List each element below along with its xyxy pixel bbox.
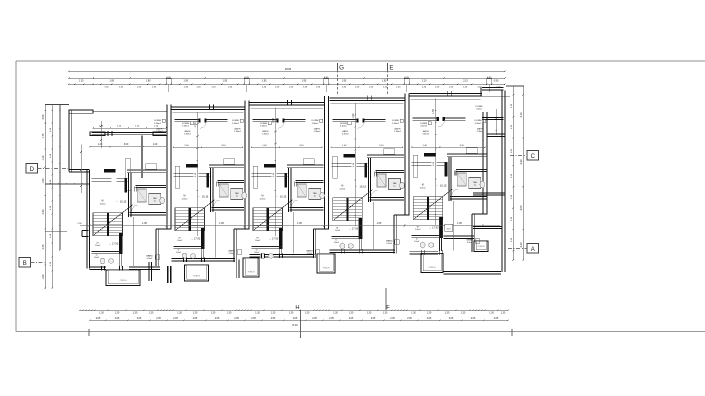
unit 4 closet left	[384, 149, 395, 155]
right annex dimension vertical	[496, 109, 498, 135]
unit 5 hall wall horizontal	[412, 162, 432, 164]
svg-text:3.30m2: 3.30m2	[262, 134, 270, 136]
unit 4 room partition wall	[332, 118, 356, 120]
svg-text:→ 17.93: → 17.93	[109, 243, 119, 246]
svg-text:0.90: 0.90	[42, 114, 45, 119]
svg-text:2.05: 2.05	[173, 318, 178, 320]
left step wall	[69, 169, 89, 171]
svg-text:1.6m2: 1.6m2	[94, 257, 99, 259]
svg-text:1.40: 1.40	[262, 86, 267, 88]
unit 2 door jambs on partition	[199, 119, 201, 123]
party wall lower jog at x=244.5	[233, 229, 235, 262]
svg-text:1.40: 1.40	[316, 86, 321, 88]
unit 3 room dimension line horizontal	[252, 146, 323, 148]
unit 2 closet left	[224, 159, 235, 165]
svg-text:1.30: 1.30	[511, 194, 513, 199]
right outer wall	[501, 91, 503, 137]
svg-text:2.05: 2.05	[115, 318, 120, 320]
grid line B	[31, 262, 47, 264]
svg-text:1.40: 1.40	[342, 145, 347, 147]
svg-text:1.30: 1.30	[511, 124, 513, 129]
svg-text:→: →	[275, 195, 278, 198]
svg-text:WARD: WARD	[386, 240, 393, 243]
unit 2 bathroom toilet	[242, 192, 247, 198]
svg-text:1.40: 1.40	[423, 145, 428, 147]
svg-text:3.30m2: 3.30m2	[422, 134, 430, 136]
svg-text:2.30: 2.30	[42, 209, 45, 214]
svg-text:1.0m2: 1.0m2	[415, 229, 421, 231]
svg-text:1.90: 1.90	[42, 178, 45, 183]
svg-text:1.10: 1.10	[353, 162, 355, 167]
grid label B box	[19, 258, 31, 268]
svg-text:2.05: 2.05	[371, 318, 376, 320]
svg-text:BATH: BATH	[423, 130, 429, 133]
unit 3 interior dimension line vertical	[275, 108, 277, 237]
svg-text:D: D	[30, 167, 35, 173]
unit 2 bath north wall	[209, 164, 244, 166]
svg-text:1.10: 1.10	[433, 161, 435, 166]
unit 2 stair side dimension line	[215, 212, 217, 258]
svg-text:1.30: 1.30	[305, 312, 310, 314]
unit 1 bathroom walls	[136, 185, 166, 187]
top dimension row 2 ticks and figures	[68, 83, 69, 85]
bottom dimension row 2 ticks and figures	[89, 320, 90, 322]
svg-text:3.0m2: 3.0m2	[476, 109, 482, 111]
svg-text:1.30: 1.30	[289, 312, 294, 314]
unit 5 room partition wall	[413, 117, 437, 119]
svg-text:2.30m2: 2.30m2	[394, 131, 402, 133]
svg-text:0.9m2: 0.9m2	[307, 253, 313, 255]
svg-text:2.10: 2.10	[422, 80, 427, 82]
svg-text:1.10: 1.10	[99, 126, 104, 128]
svg-text:1.0m2: 1.0m2	[95, 245, 101, 247]
unit 1 bath north wall dark bar	[104, 169, 115, 172]
svg-text:M: M	[341, 186, 343, 188]
unit 2 bottom window jambs	[183, 257, 185, 262]
svg-text:2.05: 2.05	[156, 318, 161, 320]
unit 4 bathroom toilet	[400, 182, 405, 188]
unit 3 wc room fixtures	[260, 253, 265, 259]
unit 3 staircase direction line	[254, 200, 293, 230]
svg-text:1.05: 1.05	[219, 222, 224, 225]
unit 5 bathroom washbox	[469, 178, 481, 189]
grid label D box	[26, 164, 38, 174]
unit 5 rear yard wall	[444, 235, 474, 237]
svg-text:WARD: WARD	[228, 250, 235, 253]
front wall inner leaf unit 2	[173, 112, 244, 114]
party wall at x=324.0	[324, 96, 326, 229]
unit 1 landing wall	[92, 250, 123, 252]
grid line E	[387, 63, 389, 70]
unit 1 yard dimension line	[100, 121, 102, 148]
svg-text:1.40: 1.40	[137, 86, 142, 88]
boxed figure on internal string	[445, 224, 453, 231]
unit 3 bath north wall	[287, 164, 324, 166]
unit 2 wall stub right of stair	[201, 228, 204, 249]
svg-text:1.20: 1.20	[153, 144, 158, 146]
party wall at x=166.5	[166, 105, 168, 230]
svg-text:1.30: 1.30	[427, 312, 432, 314]
svg-text:4.30: 4.30	[519, 159, 523, 165]
svg-text:3.30m2: 3.30m2	[342, 134, 350, 136]
unit 2 bathroom shower	[219, 184, 228, 197]
party wall lower jog at x=482.5	[471, 214, 473, 252]
unit 2 bathroom washbox	[231, 189, 243, 200]
svg-text:3.10: 3.10	[299, 145, 304, 147]
svg-text:M: M	[262, 196, 264, 198]
unit 5 door jambs on partition	[437, 117, 439, 121]
svg-text:1.10: 1.10	[50, 261, 52, 266]
svg-text:1.6m2: 1.6m2	[334, 242, 339, 244]
svg-text:→: →	[197, 195, 200, 198]
unit 1 house front wall end block right	[153, 132, 167, 136]
svg-text:1.40: 1.40	[184, 86, 189, 88]
unit 5 bathroom walls	[456, 169, 487, 171]
svg-text:16.15: 16.15	[360, 185, 367, 189]
svg-text:1.30: 1.30	[511, 173, 513, 178]
unit 3 wc right wall	[278, 248, 280, 254]
unit 4 door jambs on partition	[357, 119, 359, 123]
svg-text:1.40: 1.40	[369, 86, 374, 88]
svg-text:1.30: 1.30	[177, 312, 182, 314]
unit 4 hall door jamb dark	[365, 163, 367, 177]
grid line H	[300, 310, 302, 338]
svg-text:1.40: 1.40	[396, 86, 401, 88]
unit 2 room door arc	[200, 122, 207, 129]
right annex wall mid	[473, 192, 505, 194]
svg-text:BATH: BATH	[395, 128, 401, 131]
front wall unit 4	[329, 97, 404, 99]
top dimension row 1 ticks and figures	[69, 77, 70, 79]
svg-text:BATH: BATH	[235, 128, 241, 131]
unit 5 wc room fixtures	[420, 242, 425, 248]
svg-text:1.40: 1.40	[477, 86, 482, 88]
unit 1 yard dimension line horizontal	[93, 127, 166, 129]
svg-text:3.30m2: 3.30m2	[340, 125, 348, 127]
fold mark tick right on bottom border	[511, 329, 513, 336]
svg-text:2.30m2: 2.30m2	[234, 131, 242, 133]
svg-text:2.05: 2.05	[312, 318, 317, 320]
grid line D	[38, 168, 69, 170]
bottom stub wall unit 2 right	[235, 260, 237, 278]
unit 1 house front wall	[91, 131, 166, 133]
svg-text:M: M	[102, 201, 104, 203]
svg-text:1.05: 1.05	[457, 222, 462, 225]
unit 1 hall door jamb dark	[125, 178, 127, 192]
svg-text:1.0m2: 1.0m2	[177, 240, 183, 242]
svg-text:1.30: 1.30	[149, 312, 154, 314]
svg-text:1.10: 1.10	[195, 172, 197, 177]
left connector at landing level	[45, 231, 67, 233]
unit 1 closet right	[125, 159, 131, 191]
unit 1 staircase direction line	[94, 205, 133, 235]
svg-text:WARD: WARD	[466, 239, 473, 242]
svg-text:8.10: 8.10	[292, 323, 298, 327]
top dimension boxed figures at party walls	[166, 79, 171, 85]
right annex wall horizontal upper	[482, 116, 504, 118]
unit 4 landing wall	[331, 235, 362, 237]
svg-text:1.40: 1.40	[383, 86, 388, 88]
unit 2 interior dimension line vertical	[197, 112, 199, 236]
unit 2 staircase direction line	[176, 200, 215, 230]
svg-text:G: G	[339, 65, 344, 72]
grid label C box	[527, 151, 539, 161]
right dimension column 2	[522, 86, 524, 260]
unit 1 bathroom washbox	[149, 194, 161, 205]
svg-text:1.40: 1.40	[211, 86, 216, 88]
unit 4 hall wall vertical	[367, 158, 369, 202]
unit 1 hall wall vertical	[128, 173, 130, 217]
svg-text:1.90: 1.90	[184, 80, 189, 82]
svg-text:4.0m2: 4.0m2	[100, 203, 107, 205]
unit 2 hall wall horizontal	[174, 173, 194, 175]
svg-text:1.30: 1.30	[461, 312, 466, 314]
unit 3 closet right	[253, 166, 258, 188]
unit 1 closet left	[146, 164, 157, 170]
svg-text:1.60: 1.60	[42, 274, 45, 279]
party wall at x=482.5	[482, 112, 484, 214]
svg-text:1.30: 1.30	[115, 312, 120, 314]
svg-text:1.30: 1.30	[511, 103, 513, 108]
unit 4 bathroom door arc	[372, 190, 378, 196]
svg-text:1.95: 1.95	[262, 80, 267, 82]
svg-text:1.30: 1.30	[271, 312, 276, 314]
unit 1 staircase	[93, 213, 123, 236]
unit 1 wall stub right of stair	[119, 233, 122, 254]
svg-text:1.30: 1.30	[193, 312, 198, 314]
svg-text:→ 17.93: → 17.93	[191, 238, 201, 241]
unit 2 hall door jamb dark	[207, 173, 209, 187]
unit 5 staircase direction line	[414, 189, 453, 219]
svg-text:→ 17.93: → 17.93	[349, 228, 359, 231]
svg-text:PORCH: PORCH	[120, 280, 127, 282]
bottom wall unit 2	[172, 257, 236, 259]
unit 1 bathroom toilet	[160, 197, 165, 203]
svg-text:PORCH: PORCH	[248, 272, 255, 274]
svg-text:2.05: 2.05	[449, 318, 454, 320]
front wall inner leaf unit 4	[330, 103, 403, 105]
unit 4 interior dimension line vertical	[354, 103, 356, 226]
svg-text:2.30m2: 2.30m2	[477, 131, 485, 133]
svg-text:1.40: 1.40	[289, 86, 294, 88]
svg-text:2.05: 2.05	[96, 318, 101, 320]
unit 2 bathroom door arc	[214, 200, 220, 206]
entry porch 3	[243, 258, 259, 277]
left dimension column 3	[59, 105, 61, 251]
unit 5 hall door jamb dark	[445, 162, 447, 176]
svg-text:2.05: 2.05	[471, 318, 476, 320]
svg-text:1.40: 1.40	[196, 86, 201, 88]
svg-text:1.05: 1.05	[377, 222, 382, 225]
svg-text:2.05: 2.05	[234, 318, 239, 320]
svg-text:4.0m2: 4.0m2	[339, 188, 346, 190]
left annex dimension line	[80, 145, 82, 194]
svg-text:1.65: 1.65	[511, 148, 513, 153]
svg-text:PORCH: PORCH	[323, 268, 330, 270]
svg-text:3.30m2: 3.30m2	[312, 123, 320, 125]
svg-text:3.00: 3.00	[124, 144, 129, 146]
unit 5 landing wall	[412, 234, 443, 236]
svg-text:4.10: 4.10	[519, 112, 523, 118]
left outer wall lower	[86, 170, 88, 269]
svg-text:1.10: 1.10	[50, 179, 52, 184]
bottom stub wall unit 1 right of porch	[148, 262, 150, 281]
top dimension row 1 line	[69, 77, 505, 79]
svg-text:1.40: 1.40	[119, 86, 124, 88]
svg-text:PORCH: PORCH	[429, 267, 436, 269]
unit 4 wall stub right of stair	[359, 218, 362, 239]
unit 3 bathroom bottom wall	[290, 207, 324, 209]
svg-text:16.15: 16.15	[120, 200, 127, 204]
garden wall bar top-left	[69, 110, 93, 113]
svg-text:B: B	[23, 261, 27, 267]
unit 5 hall wall vertical	[448, 157, 450, 201]
svg-text:1.10: 1.10	[273, 172, 275, 177]
svg-text:BATH: BATH	[263, 130, 269, 133]
svg-text:BATH: BATH	[185, 130, 191, 133]
unit 3 hall wall vertical	[288, 168, 290, 212]
svg-text:1.40: 1.40	[435, 86, 440, 88]
svg-text:16.15: 16.15	[202, 195, 209, 199]
bottom wall unit 1	[90, 266, 107, 268]
unit 5 bathroom door arc	[452, 189, 458, 195]
svg-text:→: →	[435, 184, 438, 187]
unit 5 wc right wall	[439, 237, 441, 251]
top dimension row 2 line	[69, 83, 505, 85]
unit 2 room partition wall	[175, 118, 199, 120]
unit 1 room dimension line horizontal	[90, 146, 167, 148]
svg-text:1.05: 1.05	[297, 222, 302, 225]
unit 2 bathroom bottom wall	[212, 207, 244, 209]
unit 4 room door arc	[358, 122, 365, 129]
unit 1 hall wall horizontal	[92, 178, 112, 180]
right dimension top connector	[506, 85, 524, 87]
unit 5 closet left	[466, 148, 477, 154]
svg-text:1.40: 1.40	[262, 145, 267, 147]
svg-text:BATH: BATH	[477, 128, 483, 131]
svg-text:BATH: BATH	[342, 130, 348, 133]
svg-text:2.05: 2.05	[137, 318, 142, 320]
front wall unit 2	[172, 106, 245, 108]
bottom wall unit 5	[410, 250, 421, 252]
grid line C	[510, 155, 527, 157]
unit 4 stair side dimension line	[372, 202, 374, 249]
svg-text:1.10: 1.10	[154, 126, 159, 128]
unit 3 bathroom washbox	[309, 189, 321, 200]
unit 2 hall wall vertical	[210, 168, 212, 212]
unit 5 stair side dimension line	[453, 201, 455, 251]
svg-text:1.50: 1.50	[272, 118, 275, 123]
left dimension column 2	[51, 105, 53, 289]
internal dimension string across units	[80, 225, 500, 227]
left dimension mid connector	[45, 183, 89, 185]
unit 1 bathroom bottom wall	[130, 212, 166, 214]
unit 2 window jambs front wall	[209, 104, 211, 109]
svg-text:3.30m2: 3.30m2	[232, 123, 240, 125]
unit 4 wc right wall	[358, 238, 360, 250]
svg-text:1.0m2: 1.0m2	[255, 240, 261, 242]
svg-text:3.30m2: 3.30m2	[182, 125, 190, 127]
unit 2 landing wall	[174, 245, 205, 247]
unit 4 bathroom shower	[377, 174, 386, 187]
grid line F	[385, 288, 387, 310]
svg-text:2.05: 2.05	[390, 318, 395, 320]
unit 4 wc room fixtures	[340, 243, 345, 249]
unit 3 closet left	[303, 159, 314, 165]
sheet frame left border	[15, 61, 17, 332]
unit 2 closet right	[175, 166, 180, 188]
svg-text:0.9m2: 0.9m2	[229, 253, 235, 255]
svg-text:1.30: 1.30	[99, 312, 104, 314]
svg-text:2.05: 2.05	[494, 318, 499, 320]
svg-text:1.10: 1.10	[50, 153, 52, 158]
svg-text:E: E	[389, 65, 393, 72]
svg-text:1.0m2: 1.0m2	[335, 230, 341, 232]
unit 5 staircase	[413, 197, 443, 220]
party wall lower jog at x=404.5	[393, 215, 395, 254]
fold mark tick left on bottom border	[88, 329, 90, 336]
svg-text:16.15: 16.15	[280, 195, 287, 199]
svg-text:→ 17.93: → 17.93	[429, 227, 439, 230]
svg-text:3.10: 3.10	[221, 145, 226, 147]
svg-text:1.05: 1.05	[77, 223, 82, 225]
front wall inner leaf unit 3	[251, 107, 324, 109]
bottom wall unit 3	[250, 253, 315, 255]
unit 3 stair side dimension line	[293, 212, 295, 254]
party wall lower jog at x=324.0	[312, 229, 314, 258]
svg-text:1.40: 1.40	[422, 86, 427, 88]
unit 1 bathroom shower	[137, 189, 146, 202]
party wall lower jog at x=166.5	[155, 229, 157, 266]
unit 3 room partition wall	[253, 118, 277, 120]
unit 2 bath north wall dark bar	[186, 164, 197, 167]
sheet frame top border	[16, 60, 705, 62]
svg-text:1.30: 1.30	[255, 312, 260, 314]
unit 3 bathroom shower	[297, 184, 306, 197]
svg-text:1.40: 1.40	[104, 86, 109, 88]
svg-text:2.45: 2.45	[42, 244, 45, 249]
grid line G	[337, 63, 339, 70]
svg-text:1.10: 1.10	[117, 126, 122, 128]
unit 3 bathroom door arc	[292, 200, 298, 206]
grid line A	[508, 248, 527, 250]
svg-text:1.95: 1.95	[342, 80, 347, 82]
svg-text:1.80: 1.80	[146, 80, 151, 82]
svg-text:1.10: 1.10	[135, 126, 140, 128]
svg-text:1.10: 1.10	[50, 127, 52, 132]
right dimension column 1	[512, 86, 514, 260]
svg-text:M: M	[422, 185, 424, 187]
unit 5 bottom window jambs	[421, 250, 423, 255]
unit 4 room dimension line horizontal	[331, 146, 402, 148]
svg-text:1.40: 1.40	[228, 86, 233, 88]
svg-text:1.30: 1.30	[511, 237, 513, 242]
unit 4 bathroom washbox	[389, 179, 401, 190]
svg-text:→: →	[115, 200, 118, 203]
svg-text:1.30: 1.30	[211, 312, 216, 314]
unit 4 bathroom bottom wall	[370, 197, 405, 199]
party wall at x=404.5	[404, 94, 406, 216]
unit 3 bathroom walls	[296, 180, 324, 182]
unit 5 staircase middle rail	[427, 197, 429, 220]
svg-text:3.30m2: 3.30m2	[260, 125, 268, 127]
left dimension column 1	[44, 105, 46, 289]
unit 5 wall stub right of stair	[439, 217, 442, 238]
right annex wall horizontal	[487, 133, 505, 135]
svg-text:3.30m2: 3.30m2	[475, 123, 483, 125]
unit 2 staircase middle rail	[189, 208, 191, 231]
svg-text:1.30: 1.30	[383, 312, 388, 314]
